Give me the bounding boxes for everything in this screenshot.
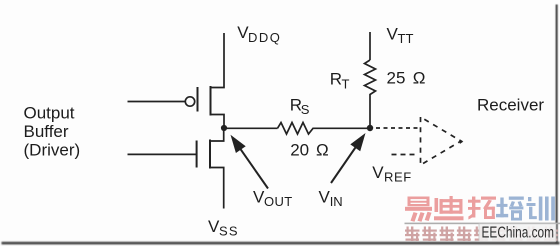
svg-text:25: 25 <box>387 68 406 87</box>
svg-text:(Driver): (Driver) <box>24 141 81 160</box>
svg-text:T: T <box>342 76 350 91</box>
svg-text:EEChina.com: EEChina.com <box>482 225 555 242</box>
svg-text:Ω: Ω <box>413 68 426 87</box>
svg-text:REF: REF <box>384 169 412 184</box>
svg-text:Ω: Ω <box>316 141 329 160</box>
svg-text:20: 20 <box>290 141 309 160</box>
svg-text:Receiver: Receiver <box>477 96 544 115</box>
svg-text:DDQ: DDQ <box>248 30 281 45</box>
svg-text:SS: SS <box>219 224 239 239</box>
svg-text:TT: TT <box>398 31 414 46</box>
svg-text:R: R <box>330 69 342 88</box>
svg-text:V: V <box>319 188 331 207</box>
svg-text:Output: Output <box>24 104 75 123</box>
svg-text:OUT: OUT <box>264 194 293 209</box>
svg-text:IN: IN <box>330 194 343 209</box>
svg-text:Buffer: Buffer <box>24 122 69 141</box>
svg-text:V: V <box>372 163 384 182</box>
svg-text:S: S <box>301 102 310 117</box>
